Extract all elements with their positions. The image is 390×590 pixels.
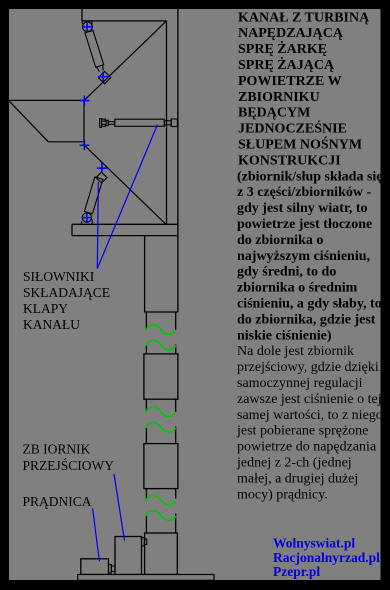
generator small box [81,559,109,575]
svg-text:do zbiornika, gdzie jest: do zbiornika, gdzie jest [237,312,376,327]
svg-text:SIŁOWNIKI: SIŁOWNIKI [23,269,95,284]
svg-text:ZB IORNIK: ZB IORNIK [23,442,91,457]
svg-text:KANAŁ Z TURBINĄ: KANAŁ Z TURBINĄ [238,10,370,25]
label silowniki [23,269,110,332]
svg-text:do zbiornika o: do zbiornika o [237,233,323,248]
svg-text:KANAŁU: KANAŁU [23,317,80,332]
web links blue [273,536,380,580]
svg-text:Racjonalnyrzad.pl: Racjonalnyrzad.pl [273,550,380,565]
leader line to middle actuator [97,125,157,269]
svg-text:jednej z 2-ch (jednej: jednej z 2-ch (jednej [236,456,352,471]
break wave 3a [146,495,176,505]
svg-text:KONSTRUKCJI: KONSTRUKCJI [238,153,341,168]
transition tank bottom box [145,533,178,575]
svg-text:gdy średni, to do: gdy średni, to do [237,265,336,280]
break wave 2a [146,407,176,417]
svg-text:Na dole jest zbiornik: Na dole jest zbiornik [237,344,354,359]
svg-text:przejściowy, gdzie dzięki: przejściowy, gdzie dzięki [237,360,379,375]
leader line to lower actuator [97,182,98,269]
actuator upper cylinder [82,21,111,84]
svg-text:PRZEJŚCIOWY: PRZEJŚCIOWY [23,458,115,473]
leader line to transition tank [114,474,125,541]
tank section 2 [144,354,178,399]
break wave 1b [146,340,176,350]
svg-text:samej wartości, to z niego: samej wartości, to z niego [237,408,383,423]
svg-text:najwyższym ciśnieniu,: najwyższym ciśnieniu, [237,249,370,264]
svg-text:gdy jest silny wiatr, to: gdy jest silny wiatr, to [237,201,368,216]
hinge cross marker upper rod end [98,72,108,82]
svg-text:BĘDĄCYM: BĘDĄCYM [238,106,310,121]
generator large box [115,537,142,575]
hinge cross marker lower pivot [82,213,92,223]
svg-text:mocy) prądnicy.: mocy) prądnicy. [237,487,328,502]
svg-text:małej, a drugiej dużej: małej, a drugiej dużej [237,471,358,486]
hinge cross marker upper pivot [82,22,92,32]
break wave 1a [146,325,176,335]
actuator lower cylinder [82,172,108,224]
svg-text:KLAPY: KLAPY [23,301,68,316]
coupling large generator - tank [142,538,147,546]
hinge cross marker lower rod end [97,163,107,173]
svg-text:powietrze jest tłoczone: powietrze jest tłoczone [237,217,372,232]
svg-text:PRĄDNICA: PRĄDNICA [23,494,92,509]
tank section 3 [144,444,178,489]
svg-text:SKŁADAJĄCE: SKŁADAJĄCE [23,285,110,300]
svg-text:jest pobierane sprężone: jest pobierane sprężone [236,424,368,439]
tank section 1 (below bottom bar) [144,236,178,312]
break wave 3b [146,511,176,521]
svg-text:niskie ciśnienie): niskie ciśnienie) [237,328,332,343]
svg-text:Wolnyswiat.pl: Wolnyswiat.pl [273,536,355,551]
wire: bottom channel bar [72,224,178,235]
wire: top channel bar [82,9,167,21]
title paragraph bold caps [237,10,383,343]
svg-text:NAPĘDZAJĄCĄ: NAPĘDZAJĄCĄ [238,26,344,41]
base plate [78,575,214,581]
svg-text:z 3 części/zbiorników -: z 3 części/zbiorników - [237,185,371,200]
break wave 2b [146,422,176,432]
paragraph regular [236,344,383,502]
neck with break 1 [146,312,175,354]
neck with break 2 [146,399,175,443]
wire: upper flap diagonal [84,21,166,100]
svg-text:samoczynnej regulacji: samoczynnej regulacji [237,376,363,391]
svg-text:SPRĘ ŻAJĄCĄ: SPRĘ ŻAJĄCĄ [238,56,335,73]
svg-text:ZBIORNIKU: ZBIORNIKU [238,90,320,105]
svg-text:zawsze jest ciśnienie o tej: zawsze jest ciśnienie o tej [237,392,382,407]
svg-text:JEDNOCZEŚNIE: JEDNOCZEŚNIE [238,120,347,137]
coupling small-large generator [109,565,116,573]
svg-text:ciśnieniu, a gdy słaby, to: ciśnieniu, a gdy słaby, to [237,297,382,312]
wire: lower flap diagonal [84,145,165,224]
hinge cross marker funnel bottom [80,140,90,150]
hinge cross marker funnel top [80,96,90,106]
svg-text:SPRĘ ŻARKĘ: SPRĘ ŻARKĘ [238,40,327,57]
svg-text:zbiornika o średnim: zbiornika o średnim [237,281,358,296]
wire: open flap funnel at left [9,100,85,147]
svg-text:(zbiornik/słup składa się: (zbiornik/słup składa się [237,169,383,184]
svg-text:powietrze do napędzania: powietrze do napędzania [237,440,377,455]
svg-text:Pzepr.pl: Pzepr.pl [273,564,320,579]
wire: right column of channel frame [167,9,178,312]
svg-text:POWIETRZE W: POWIETRZE W [238,74,342,89]
svg-text:SŁUPEM NOŚNYM: SŁUPEM NOŚNYM [238,136,362,153]
label zbiornik przejsciowy [23,442,115,474]
leader line to generator [93,508,100,561]
neck with break 3 [146,489,175,533]
actuator middle horizontal cylinder [100,119,178,128]
